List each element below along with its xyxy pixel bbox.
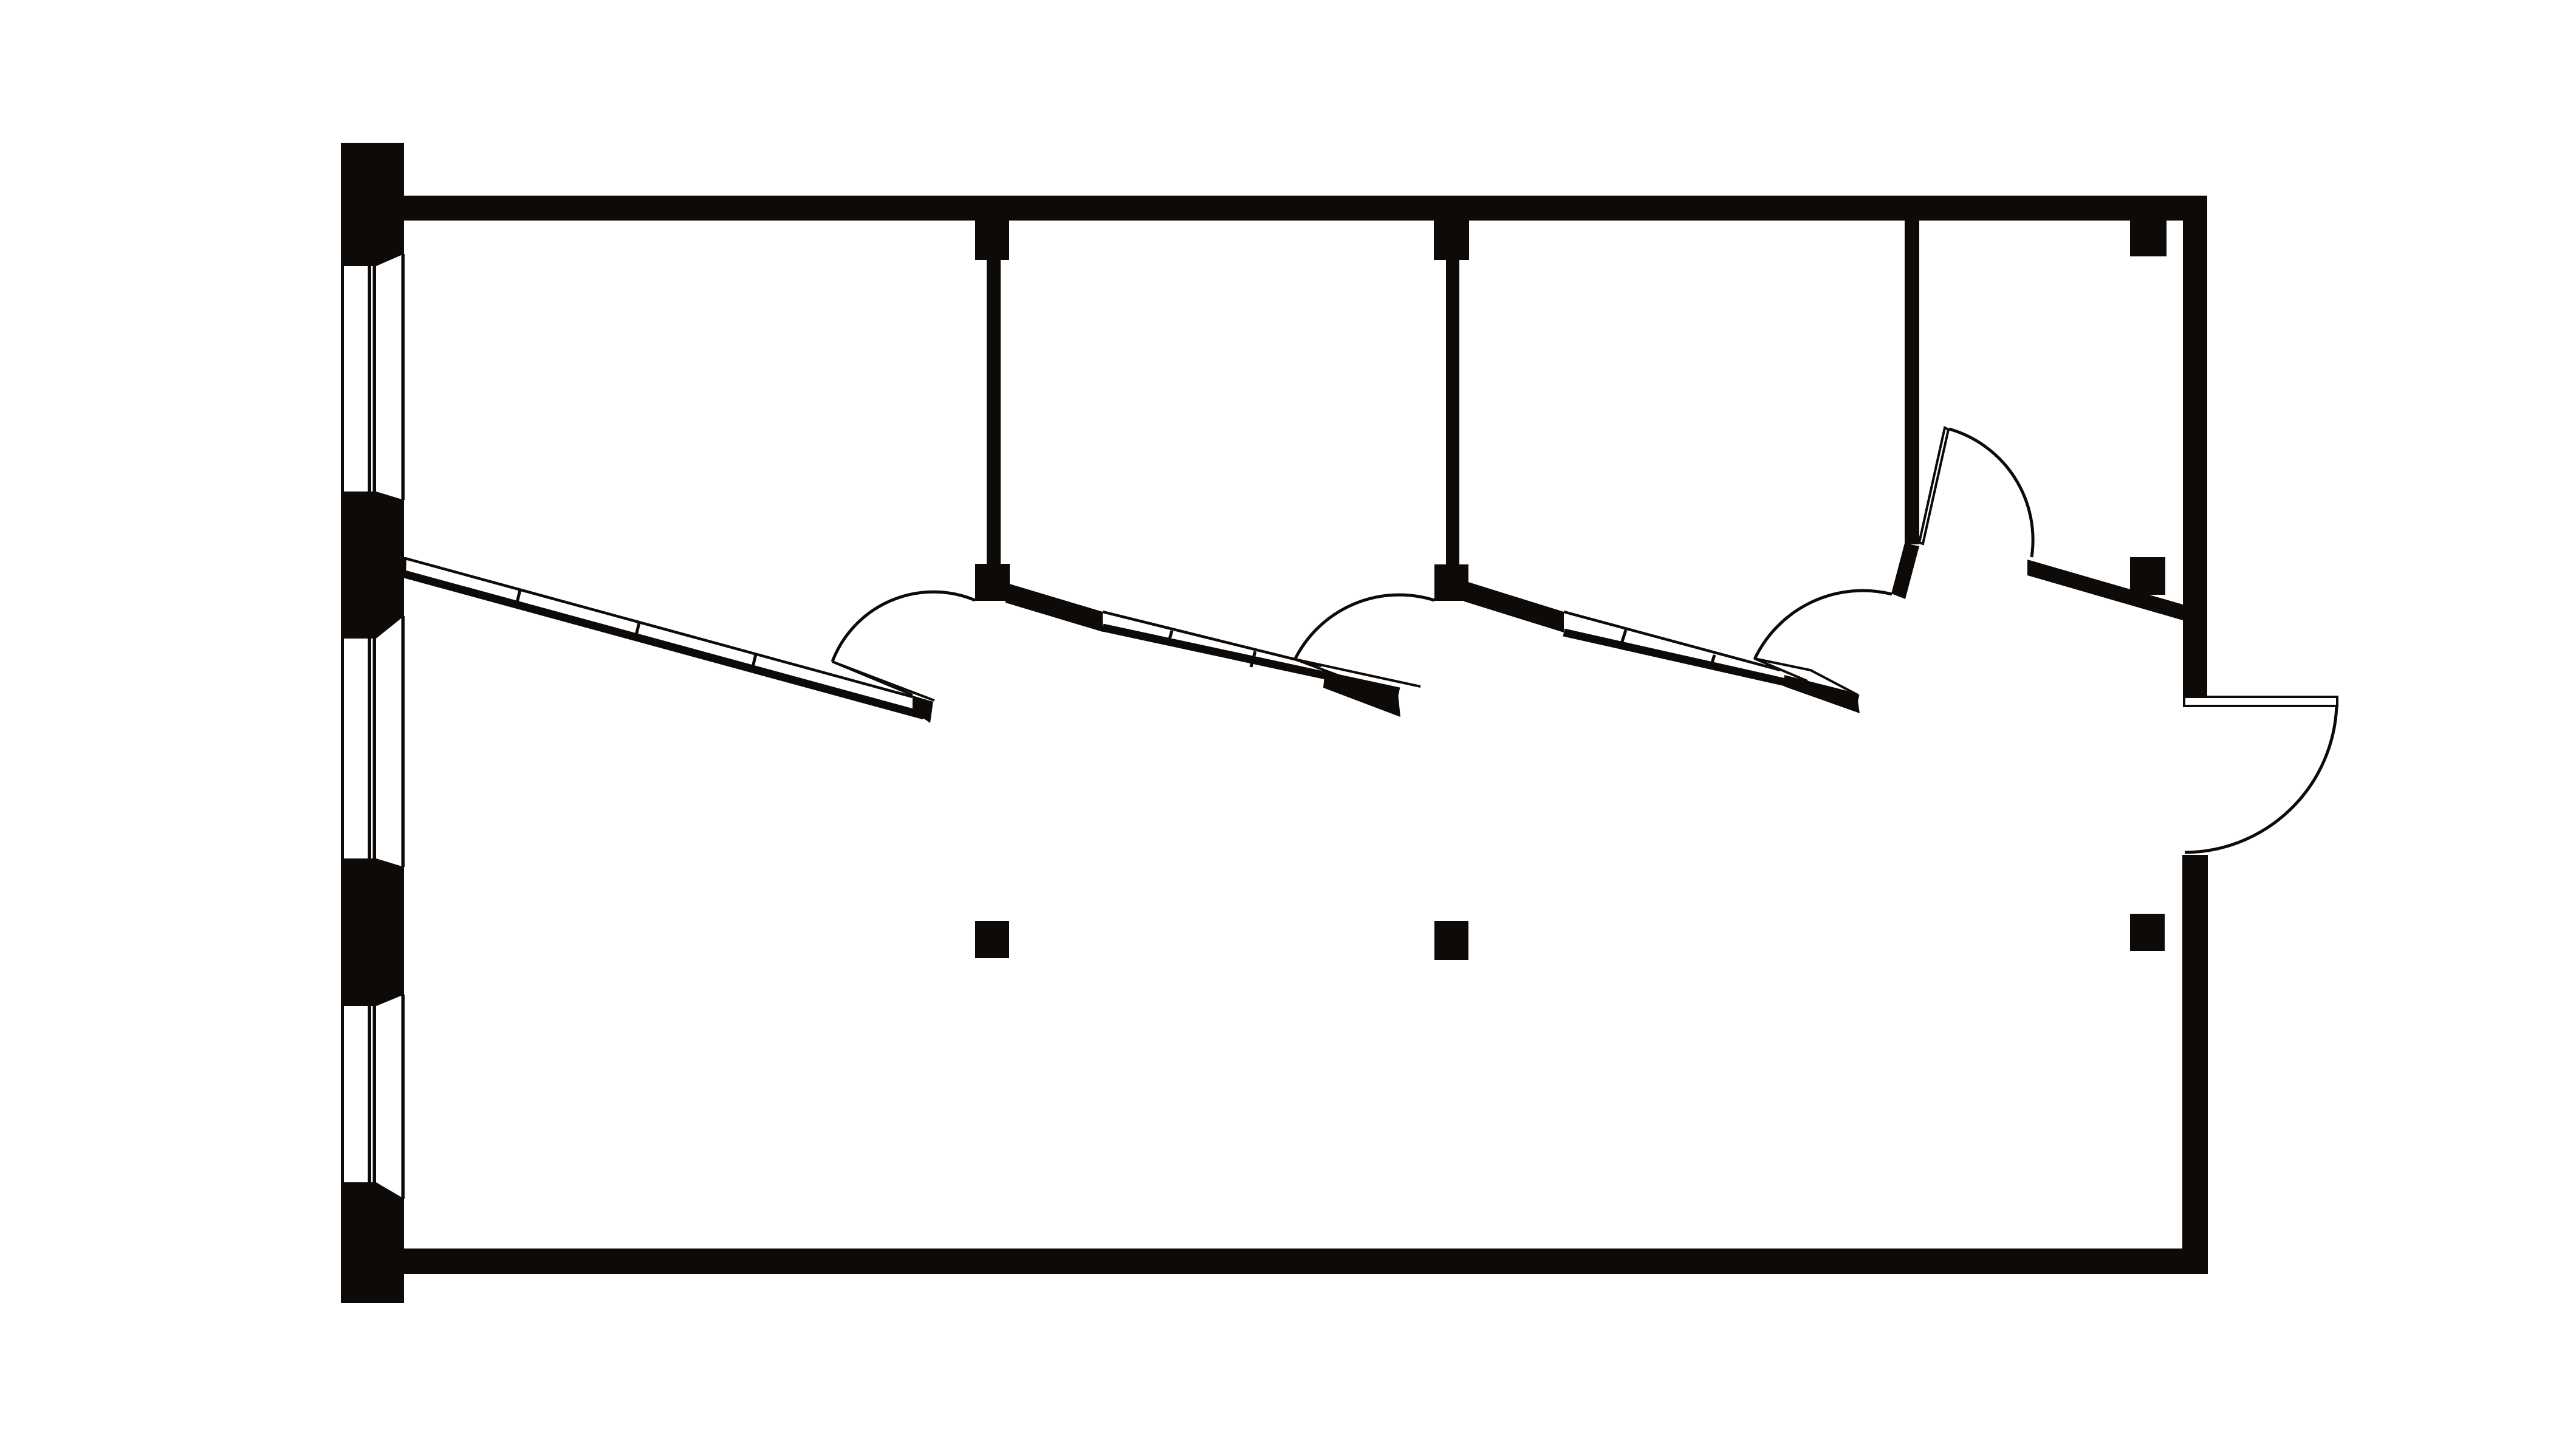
partition wall 1 top post	[975, 221, 1009, 260]
screen wall 2 top edge	[1103, 612, 1321, 666]
screen wall 3 division tick a	[1622, 630, 1626, 643]
left facade pier block 2	[341, 492, 404, 639]
window glazing double line, window 3	[368, 1006, 372, 1182]
window glazing double line, window 1	[368, 266, 372, 492]
window inner jamb line, window 2	[402, 616, 405, 867]
wall top exterior	[403, 196, 2207, 221]
post on sloped stub wall	[2130, 557, 2165, 595]
window inner jamb line, window 1	[402, 254, 405, 500]
partition wall 1 bottom post	[975, 564, 1010, 601]
window glazing double line, window 2	[368, 639, 372, 858]
sloped stub wall to right wall	[2027, 560, 2183, 620]
door 3 leaf near-closed edge lower	[1755, 659, 1807, 681]
left facade pier block 3	[341, 858, 404, 1006]
screen wall 1 end cap at wall	[405, 557, 405, 578]
door 1 swing arc	[832, 592, 975, 662]
door 2 swing arc	[1295, 595, 1434, 660]
left facade pier block 1 (top-left)	[341, 143, 404, 266]
door 4 swing arc	[1949, 429, 2033, 557]
screen wall 3 bottom thick edge	[1564, 632, 1858, 699]
screen wall 2 division tick a	[1168, 631, 1172, 645]
screen wall 1 division tick a	[516, 590, 520, 608]
column B (free standing)	[1434, 921, 1468, 960]
door 2 leaf near-closed edge upper	[1295, 659, 1420, 687]
screen wall 1 bottom thick edge	[405, 574, 924, 716]
column A (free standing)	[975, 921, 1009, 958]
window inner jamb line, window 3	[402, 995, 405, 1199]
door 2 hinge tip block	[1323, 676, 1400, 717]
post under top wall near right	[2130, 221, 2167, 256]
door 1 leaf near-closed edge upper	[832, 662, 913, 695]
door 3 hinge tip block	[1784, 675, 1860, 713]
door 2 leaf near-closed edge lower	[1295, 659, 1352, 680]
partition wall 2 bottom post	[1434, 564, 1468, 601]
partition wall 1 stud line	[987, 260, 1001, 564]
screen wall 1 division tick b	[635, 623, 639, 640]
partition wall 2 stud line	[1446, 260, 1459, 564]
door 1 hinge tip block	[913, 696, 933, 723]
wall bottom exterior	[404, 1249, 2208, 1274]
partition wall 3 angled foot	[1891, 543, 1919, 599]
screen wall 2 bottom thick edge	[1103, 628, 1399, 691]
exterior door leaf	[2184, 697, 2337, 706]
screen wall 3 solid start bar	[1464, 581, 1564, 632]
screen wall 3 division tick b	[1710, 655, 1714, 668]
wall right upper segment	[2183, 220, 2207, 700]
window outer frame line (left facade)	[341, 143, 344, 1303]
partition wall 2 top post	[1434, 221, 1469, 260]
screen wall 2 solid start bar	[1005, 583, 1103, 632]
partition wall 3 stud line	[1905, 220, 1919, 544]
screen wall 1 division tick c	[752, 654, 756, 672]
door 3 swing arc	[1755, 591, 1892, 659]
screen wall 3 top edge	[1564, 612, 1780, 670]
exterior door swing arc	[2185, 706, 2337, 852]
screen wall 2 division tick b	[1251, 651, 1255, 667]
door 3 leaf near-closed edge upper	[1755, 659, 1858, 695]
door 1 leaf near-closed edge lower	[832, 662, 934, 701]
screen wall 1 top edge	[405, 558, 913, 697]
wall right lower segment	[2182, 855, 2208, 1274]
column C (free standing)	[2130, 914, 2165, 951]
door 4 leaf (open position)	[1919, 428, 1948, 544]
left facade pier block 4 (bottom-left)	[341, 1182, 404, 1303]
